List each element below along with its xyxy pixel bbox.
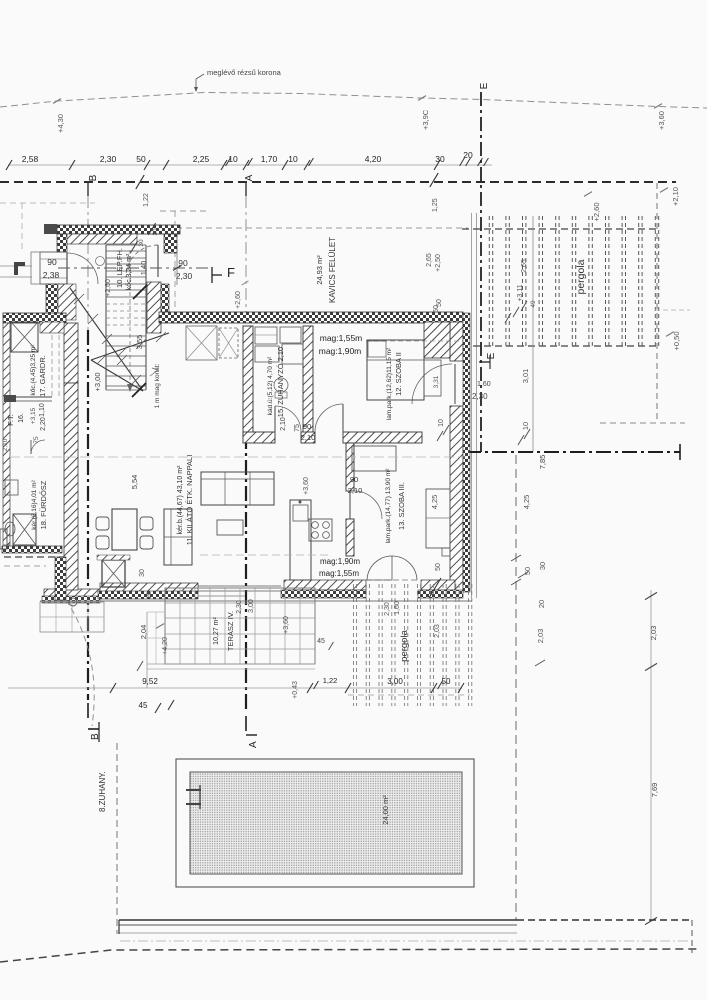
svg-text:1,22: 1,22 <box>323 676 338 685</box>
entrance porch outline <box>40 252 67 284</box>
shower west wall <box>243 326 253 437</box>
svg-text:2,65: 2,65 <box>521 259 528 273</box>
svg-text:kér.b.(44,67) 43,10 m²: kér.b.(44,67) 43,10 m² <box>177 465 184 535</box>
annex hatch stub <box>40 322 64 333</box>
east insulation strip <box>463 313 470 592</box>
sofa vertical <box>164 509 192 565</box>
french doors opening <box>366 579 418 581</box>
svg-text:4,20: 4,20 <box>365 154 382 164</box>
shower door arc <box>274 406 276 432</box>
corridor wall segment 1 <box>243 432 275 443</box>
wing top wall <box>57 225 180 234</box>
svg-text:+2,50: +2,50 <box>435 254 442 272</box>
sliding door opening lines <box>198 585 281 587</box>
bathroom wc <box>5 522 15 536</box>
svg-text:mag:1,90m: mag:1,90m <box>320 557 360 566</box>
svg-text:KAVICS FELÜLET: KAVICS FELÜLET <box>328 237 337 303</box>
eaves double line right <box>471 213 473 598</box>
left dashed vertical <box>116 743 118 934</box>
retaining wall top <box>119 919 517 921</box>
room III bed <box>352 446 396 471</box>
annex middle wall <box>6 396 52 398</box>
shower east wall <box>303 326 313 434</box>
svg-text:lam.park.(14,77) 13,90 m²: lam.park.(14,77) 13,90 m² <box>385 468 392 544</box>
svg-text:2,10: 2,10 <box>348 486 363 495</box>
svg-text:50: 50 <box>433 305 440 313</box>
svg-text:E: E <box>479 82 490 89</box>
left protrusion <box>0 529 7 549</box>
svg-text:F: F <box>227 265 235 280</box>
svg-text:50: 50 <box>136 154 146 164</box>
opening slash mark <box>429 578 441 598</box>
svg-text:+2,10: +2,10 <box>671 187 680 206</box>
corridor wall segment 3 <box>343 432 422 443</box>
svg-text:90: 90 <box>350 475 358 484</box>
svg-text:20: 20 <box>152 228 159 236</box>
svg-text:30: 30 <box>138 239 145 247</box>
svg-text:2,30: 2,30 <box>100 154 117 164</box>
svg-text:45: 45 <box>139 701 148 710</box>
svg-text:13. SZOBA III.: 13. SZOBA III. <box>397 482 406 530</box>
long dashed vertical x516 <box>515 455 517 920</box>
svg-text:2,10: 2,10 <box>2 438 9 451</box>
gravel area dashed boundary top <box>176 227 468 229</box>
svg-text:2,65: 2,65 <box>426 253 433 267</box>
annex top wall <box>3 313 66 323</box>
room II height dashed line <box>366 340 463 342</box>
svg-text:1,60: 1,60 <box>477 381 491 388</box>
svg-text:F.T.: F.T. <box>6 414 15 426</box>
section line B end mark <box>87 703 89 718</box>
wing right wall lower <box>147 282 161 333</box>
french door arcs <box>367 556 392 580</box>
svg-text:2,58: 2,58 <box>22 154 39 164</box>
mini terrace left <box>40 602 104 632</box>
top dimension ticks <box>6 160 12 170</box>
svg-text:8.ZUHANY.: 8.ZUHANY. <box>98 771 107 812</box>
svg-text:9,52: 9,52 <box>142 677 158 686</box>
svg-text:1,25: 1,25 <box>432 198 439 212</box>
svg-text:30: 30 <box>435 154 445 164</box>
FT door arc <box>31 440 45 454</box>
svg-text:45: 45 <box>317 638 325 645</box>
terrace tile grid <box>165 588 315 664</box>
light shaft with X <box>11 322 38 352</box>
wing left wall hatch inner <box>58 284 76 320</box>
section mark F <box>58 267 212 269</box>
svg-text:2,30: 2,30 <box>176 271 193 281</box>
svg-text:2,04: 2,04 <box>139 625 148 640</box>
closet with X 2 <box>219 328 238 358</box>
svg-text:+2,60: +2,60 <box>592 203 601 222</box>
wing right door leaf and swing <box>157 245 159 277</box>
svg-text:kőc.(4,45)3,25 m²: kőc.(4,45)3,25 m² <box>30 344 37 396</box>
main north wall <box>159 312 463 323</box>
svg-text:2,30: 2,30 <box>384 602 391 616</box>
wing column circle <box>96 257 105 266</box>
svg-text:A: A <box>244 174 255 181</box>
coffee table <box>217 520 243 535</box>
retaining wall dashed continuation <box>517 919 692 921</box>
svg-text:kád.ü:(5,12) 4,70 m²: kád.ü:(5,12) 4,70 m² <box>267 356 274 415</box>
svg-text:3,00: 3,00 <box>387 677 403 686</box>
tick and dim 1,25 on boundary <box>430 173 438 187</box>
shower tray <box>282 344 303 364</box>
room III wardrobe <box>426 489 450 548</box>
railing bold slashes <box>133 285 147 299</box>
room II door arc <box>342 404 344 432</box>
svg-text:90: 90 <box>47 257 57 267</box>
tick and dim 1,22 on boundary <box>136 175 144 189</box>
stair walk line <box>129 250 131 388</box>
section line A vertical <box>245 196 247 330</box>
main east wall hatch upper <box>450 322 463 361</box>
svg-text:E: E <box>486 352 497 359</box>
svg-text:1,22: 1,22 <box>143 193 150 207</box>
kitchen stove <box>309 519 332 541</box>
svg-text:20: 20 <box>537 600 546 608</box>
svg-text:B: B <box>88 174 99 181</box>
pergola right edge dashed <box>656 183 658 423</box>
stair void railing steep diagonal <box>70 288 143 391</box>
wing top wall inner hatch <box>64 234 137 244</box>
svg-text:16.: 16. <box>18 413 25 423</box>
dashed arc boundary <box>66 600 94 726</box>
annex south wall <box>2 546 62 553</box>
terrain crest dashed line <box>0 93 707 109</box>
svg-text:2,20: 2,20 <box>40 417 47 431</box>
svg-text:+3,15: +3,15 <box>30 407 37 424</box>
svg-text:30: 30 <box>538 562 547 570</box>
svg-text:1,70: 1,70 <box>261 154 278 164</box>
svg-text:+3,9C: +3,9C <box>421 109 430 130</box>
svg-text:24,00 m²: 24,00 m² <box>381 795 390 825</box>
gardrobe wardrobe dashed lines <box>51 335 53 396</box>
svg-text:+0,43: +0,43 <box>292 681 299 699</box>
svg-text:pergola: pergola <box>399 629 410 661</box>
dim line x651 <box>650 590 652 921</box>
svg-text:+3,60: +3,60 <box>657 111 666 130</box>
section line B vertical <box>87 196 89 330</box>
svg-text:mag:1,55m: mag:1,55m <box>319 569 359 578</box>
svg-text:75: 75 <box>33 436 40 444</box>
main east wall hatch lower <box>450 406 463 592</box>
pergola slats <box>489 216 658 347</box>
svg-text:20: 20 <box>463 150 473 160</box>
chairs <box>96 517 109 530</box>
room III west wall <box>346 443 354 491</box>
living west wall <box>64 323 78 383</box>
kitchen counter <box>290 500 311 580</box>
NE corner pier <box>424 322 450 358</box>
svg-text:18. FÜRDŐSZ: 18. FÜRDŐSZ <box>39 480 48 529</box>
upper-left dashed vertical <box>21 203 23 253</box>
svg-text:3,31: 3,31 <box>433 375 440 388</box>
kitchen sink <box>293 505 308 521</box>
svg-text:10,27 m²: 10,27 m² <box>213 617 220 645</box>
wing right wall upper <box>164 234 177 253</box>
bottom boundary dashed <box>0 949 700 962</box>
fireplace <box>102 560 125 587</box>
svg-text:+4,30: +4,30 <box>56 114 65 133</box>
svg-text:2,10: 2,10 <box>301 433 316 442</box>
svg-text:30: 30 <box>139 569 146 577</box>
svg-text:2,25: 2,25 <box>193 154 210 164</box>
svg-text:2,10: 2,10 <box>280 417 287 431</box>
svg-text:17. GARDR.: 17. GARDR. <box>38 355 47 397</box>
svg-text:1,10: 1,10 <box>39 403 46 417</box>
svg-text:kőc.3,24 m²: kőc.3,24 m² <box>126 253 133 290</box>
sofa horizontal <box>201 472 274 505</box>
svg-text:3,00: 3,00 <box>248 599 255 613</box>
svg-text:pergola: pergola <box>575 259 587 294</box>
svg-text:2,38: 2,38 <box>43 270 60 280</box>
svg-text:2,03: 2,03 <box>536 629 545 644</box>
svg-text:+2,60: +2,60 <box>235 291 242 309</box>
svg-text:+3,00: +3,00 <box>93 373 102 392</box>
svg-text:+3,11: +3,11 <box>517 284 524 301</box>
level +0,50 right <box>655 309 690 311</box>
faint glass line y555 <box>200 554 330 556</box>
gravel area dashed boundary left <box>174 211 176 308</box>
pergola post vertical line <box>532 216 534 452</box>
porch dark post <box>14 262 25 275</box>
south wall living segment west (stepped lower) <box>44 589 100 597</box>
section line A end mark <box>245 716 247 731</box>
level mark +3,60 <box>654 104 662 109</box>
svg-text:4,25: 4,25 <box>430 495 439 510</box>
svg-text:5,54: 5,54 <box>130 475 139 490</box>
level mark +4,30 <box>53 99 61 104</box>
stair treads <box>106 245 146 390</box>
pergola dims +2,60 <box>584 192 592 197</box>
svg-text:3,55: 3,55 <box>135 335 144 350</box>
svg-text:+4,20: +4,20 <box>162 637 169 655</box>
svg-text:20: 20 <box>146 591 153 599</box>
terrace outline <box>165 588 315 664</box>
bottom dimension line <box>8 687 462 689</box>
stair flight rails <box>105 245 107 390</box>
svg-text:2,03: 2,03 <box>649 626 658 641</box>
svg-text:mag:1,55m: mag:1,55m <box>320 333 363 343</box>
svg-text:+2,60: +2,60 <box>105 279 112 297</box>
corridor wall segment 2 <box>301 432 315 443</box>
svg-text:10: 10 <box>521 422 530 430</box>
closet with X 1 <box>186 326 217 360</box>
wing left wall upper <box>57 234 67 252</box>
svg-text:10: 10 <box>438 419 445 427</box>
level mark +3,90 <box>418 96 426 101</box>
svg-text:7,69: 7,69 <box>650 783 659 798</box>
svg-text:+0,50: +0,50 <box>672 332 681 351</box>
entry door leaf and swing <box>66 253 68 284</box>
shower basin <box>255 346 279 362</box>
annex west wall <box>3 323 10 545</box>
porch walkway lines <box>0 265 32 267</box>
wing left wall lower <box>46 284 58 320</box>
gravel area dashed overhang top-left <box>160 210 210 212</box>
terrain label leader <box>195 79 197 90</box>
svg-text:1,60: 1,60 <box>394 601 401 615</box>
svg-text:12. SZOBA II: 12. SZOBA II <box>394 352 403 396</box>
wing top-right diagonal dims <box>130 241 137 253</box>
bathroom shower box <box>13 514 36 545</box>
lower pergola slats <box>353 584 471 706</box>
svg-text:3,01: 3,01 <box>521 369 530 384</box>
pergola upper horizontal dashed bottom <box>462 345 658 347</box>
pool outer rect <box>176 759 474 887</box>
svg-text:meglévő rézsű korona: meglévő rézsű korona <box>207 68 282 77</box>
svg-text:4,25: 4,25 <box>522 495 531 510</box>
room III door <box>349 491 351 519</box>
svg-text:2,30: 2,30 <box>472 392 488 401</box>
svg-text:50: 50 <box>442 677 451 686</box>
svg-text:50: 50 <box>435 563 442 571</box>
faint dash-dot line <box>120 940 692 942</box>
pool inner rect <box>190 772 462 874</box>
outdoor shower head circle <box>69 598 77 606</box>
svg-text:11. KILÁTÓ ÉTK. NAPPALI: 11. KILÁTÓ ÉTK. NAPPALI <box>185 455 194 546</box>
south wall living segment east <box>100 583 198 592</box>
stair void railing diagonal SW-SE <box>91 360 143 391</box>
pool ladder <box>186 789 201 791</box>
svg-text:75: 75 <box>294 424 301 432</box>
lower pergola bottom dashed <box>348 694 470 696</box>
svg-text:B: B <box>90 733 101 740</box>
faint projection line y457 <box>10 456 465 458</box>
svg-text:lam.park.(12,62)11,15 m²: lam.park.(12,62)11,15 m² <box>386 347 393 420</box>
top dimension chain line <box>8 164 492 166</box>
shower cabinets top <box>255 327 277 344</box>
svg-text:10: 10 <box>288 154 298 164</box>
stair void railing diagonal NE-SW <box>91 333 169 360</box>
svg-text:2,03: 2,03 <box>434 624 441 638</box>
wing corner block <box>44 224 57 234</box>
svg-text:24,93 m²: 24,93 m² <box>315 255 324 285</box>
svg-text:TERASZ IV.: TERASZ IV. <box>226 611 235 651</box>
section line E vertical <box>480 92 482 452</box>
pergola upper horizontal dashed top <box>462 228 658 230</box>
terrace left extension <box>146 612 148 688</box>
svg-text:49: 49 <box>530 300 537 308</box>
railing hatch ticks <box>74 294 166 385</box>
svg-text:90: 90 <box>303 422 311 431</box>
heavy section dash-dot y452 <box>466 451 680 453</box>
svg-text:7,85: 7,85 <box>538 455 547 470</box>
upper-left dashed line <box>0 202 95 204</box>
svg-text:A: A <box>248 741 259 748</box>
dining table <box>112 509 137 550</box>
shower toilet <box>274 378 288 392</box>
property boundary dashed line <box>0 181 676 183</box>
south eaves line <box>40 600 472 602</box>
svg-text:+3,60: +3,60 <box>283 616 290 634</box>
svg-text:mag:1,90m: mag:1,90m <box>319 346 362 356</box>
svg-text:+3,60: +3,60 <box>303 477 310 495</box>
svg-text:kér.(6,16)4,01 m²: kér.(6,16)4,01 m² <box>31 479 38 529</box>
south wall mid segment <box>284 580 366 590</box>
south wall east segment <box>421 580 455 590</box>
room II bed <box>367 340 424 400</box>
svg-text:2,30: 2,30 <box>236 600 243 614</box>
east door leaf+swing <box>454 364 456 404</box>
pergola bottom dashed y423 <box>600 422 685 424</box>
room II side cabinet <box>424 360 441 396</box>
